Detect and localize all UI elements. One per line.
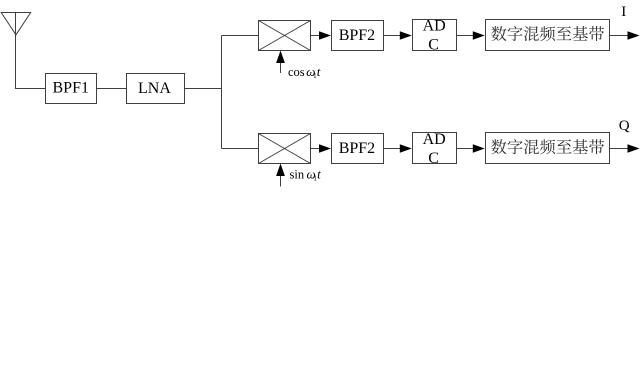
- svg-text:C: C: [428, 37, 439, 54]
- svg-text:t: t: [317, 64, 321, 79]
- svg-text:AD: AD: [423, 18, 446, 35]
- svg-text:cos: cos: [288, 65, 305, 79]
- svg-text:sin: sin: [290, 167, 305, 181]
- svg-text:BPF2: BPF2: [339, 27, 375, 44]
- svg-text:t: t: [317, 166, 321, 181]
- svg-text:Q: Q: [619, 118, 630, 134]
- svg-text:I: I: [621, 4, 626, 20]
- svg-text:BPF1: BPF1: [53, 80, 89, 97]
- svg-text:AD: AD: [423, 131, 446, 148]
- svg-text:LNA: LNA: [138, 80, 171, 97]
- svg-text:C: C: [428, 150, 439, 167]
- svg-text:BPF2: BPF2: [339, 140, 375, 157]
